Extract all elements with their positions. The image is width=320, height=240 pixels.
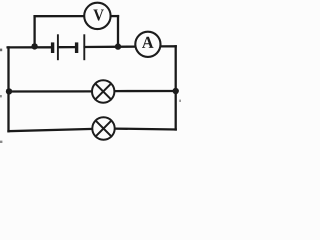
battery cell 2 short thick plate (75, 42, 78, 53)
wire: voltmeter right stub (110, 15, 118, 17)
wire: right vertical rail (175, 46, 177, 129)
lamp L2 circle (bottom row) (92, 117, 114, 139)
voltmeter U-V circle (84, 3, 110, 29)
voltmeter label V (93, 10, 104, 21)
wire: top main row, left corner to battery (8, 46, 52, 48)
ammeter circle (135, 32, 160, 57)
wire: voltmeter branch vertical right (117, 16, 119, 46)
battery cell 1 short thick plate (51, 42, 54, 53)
wire: bottom lamp row left (9, 129, 93, 131)
wire: voltmeter branch vertical left (33, 16, 35, 46)
battery cell 1 long thin plate (57, 34, 59, 60)
lamp L2 cross (96, 121, 112, 137)
circuit schematic: battery, voltmeter V, ammeter A, two lamps in parallel (0, 0, 181, 148)
wire: bottom lamp row right (115, 127, 176, 130)
lamp L1 cross (95, 84, 111, 100)
scan speck left edge lower (0, 141, 2, 143)
ammeter label A (142, 37, 154, 48)
wire: between battery cells (58, 46, 75, 48)
junction node: right rail / middle lamp row (173, 88, 179, 94)
scan speck left edge upper (0, 49, 2, 52)
wire: left vertical rail (7, 47, 9, 131)
wire: middle lamp row right (114, 90, 175, 92)
scan speck right edge (179, 100, 181, 102)
junction node: left rail / middle lamp row (6, 88, 12, 94)
junction node: voltmeter branch right on main row (115, 43, 121, 49)
wire: voltmeter branch top horizontal (35, 15, 85, 17)
scan speck left edge middle (0, 95, 2, 97)
wire: battery to ammeter (85, 45, 137, 48)
junction node: voltmeter branch left on main row (31, 43, 37, 49)
wire: ammeter to top-right corner (160, 45, 176, 47)
lamp L1 circle (middle row) (92, 80, 114, 102)
wire: middle lamp row left (9, 90, 92, 92)
battery cell 2 long thin plate (83, 34, 85, 60)
